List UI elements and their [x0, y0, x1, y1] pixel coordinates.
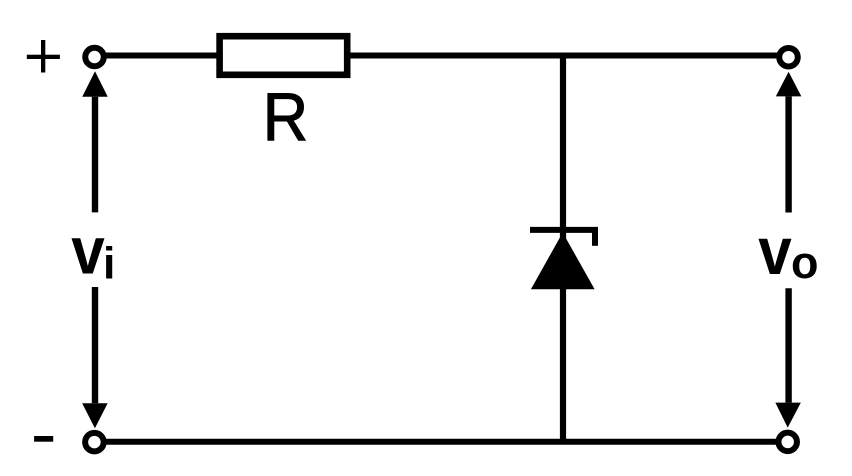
- svg-text:v: v: [758, 215, 792, 289]
- svg-text:i: i: [103, 240, 115, 289]
- svg-text:o: o: [791, 237, 819, 288]
- svg-text:R: R: [263, 81, 308, 156]
- svg-text:v: v: [71, 215, 105, 289]
